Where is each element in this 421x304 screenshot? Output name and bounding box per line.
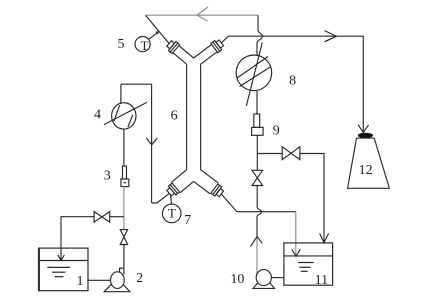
wire fitting 3 down to tee [123, 187, 125, 230]
column 6 bottom-left joint stub [167, 188, 175, 196]
wire hop over y211 line [257, 207, 262, 217]
wire vapor line y36 to flask [229, 36, 364, 131]
tank 11 liquid mark 3 [301, 270, 308, 272]
wire y84 header [121, 83, 152, 85]
column 6 top-left joint band [168, 42, 179, 54]
column 6 bottom-right joint band line [213, 185, 220, 194]
column 6 bottom-right joint stub [216, 189, 224, 197]
column 6 top-left joint stub [167, 41, 175, 49]
column 6 vertical tube right wall [200, 64, 202, 170]
fitting 9 neck [254, 114, 260, 127]
wire rotameter 4 to fitting 3 [123, 129, 125, 166]
flask 12 body [348, 138, 390, 188]
tank 1 left wall emphasis [38, 248, 40, 291]
wire pump 2 suction from tank 1 [88, 279, 111, 281]
thermometer 7 bulb [162, 204, 181, 223]
wire branch to valve V3 [257, 153, 282, 155]
rotameter 4 long diagonal [104, 102, 147, 124]
column 6 vertical tube left wall [186, 64, 188, 170]
pump 2 stand [104, 278, 130, 292]
wire header to rotameter 4 [120, 84, 122, 104]
column 6 top-right joint band [211, 41, 222, 53]
wire hop to rotameter 8 [256, 43, 258, 56]
svg-text:9: 9 [273, 124, 280, 139]
svg-text:12: 12 [359, 163, 373, 178]
tank 1 shell [39, 248, 88, 291]
rotameter 8 chord lower [240, 67, 272, 87]
wire column bottom-right outlet diagonal [221, 194, 295, 212]
flask 12 mouth [356, 137, 374, 139]
wire feed line from y84 header down to column [151, 84, 153, 203]
wire top-right corner down to hop [257, 15, 259, 30]
node thermometer 5 tap [156, 31, 159, 34]
svg-text:T: T [141, 38, 149, 53]
arrow left on top line [197, 7, 208, 21]
svg-text:1: 1 [77, 274, 84, 289]
thermometer 5 bulb [135, 37, 150, 52]
tank 11 liquid level [284, 255, 333, 257]
valve V2 vertical [120, 230, 127, 245]
thermometer 7 stub [171, 195, 172, 204]
svg-text:T: T [168, 206, 176, 221]
pump 2 body [111, 272, 125, 289]
svg-text:6: 6 [171, 108, 178, 123]
rotameter 8 long diagonal [246, 43, 262, 107]
column 6 top-left arm tube [173, 46, 194, 65]
wire hop over y36 line [257, 30, 262, 43]
arrow down into tank 1 liquid [58, 255, 64, 261]
wire pump 10 suction from tank 11 [271, 277, 284, 279]
tank 1 liquid mark 3 [55, 276, 64, 278]
tank 1 liquid level [39, 260, 88, 262]
wire fitting 9 to branch tee [256, 135, 258, 170]
svg-text:2: 2 [136, 271, 143, 286]
column 6 top-right joint stub [216, 40, 224, 48]
wire valve V3 to corner [300, 154, 324, 243]
arrow down on feed line [146, 138, 157, 145]
tank 11 liquid mark 2 [299, 266, 310, 268]
wire valve V2 to pump 2 nozzle [123, 245, 125, 269]
pump 10 body [256, 270, 271, 286]
wire valve V1 to tank 1 drop [61, 217, 94, 260]
wire pump 10 discharge lower [256, 237, 258, 274]
svg-text:4: 4 [94, 107, 101, 122]
wire hop down to pump 10 [256, 217, 258, 237]
wire bottom-left arm to feed line [152, 194, 170, 203]
svg-text:8: 8 [289, 74, 296, 89]
tank 1 liquid mark 1 [47, 266, 70, 268]
svg-text:5: 5 [118, 37, 125, 52]
column 6 bottom-left joint band [168, 183, 179, 195]
wire down into tank 11 left [295, 212, 297, 256]
column 6 bottom-right joint band [211, 184, 222, 196]
column 6 bottom-left arm tube [172, 170, 194, 193]
column 6 bottom-left joint band line [170, 185, 177, 194]
arrow down into tank 11 right [320, 233, 329, 242]
rotameter 4 chord right [128, 115, 133, 127]
rotameter 4 chord left [114, 105, 120, 121]
valve V3 horizontal [282, 147, 300, 160]
arrow right on y36 line [325, 31, 337, 42]
svg-text:11: 11 [315, 273, 328, 288]
wire top-right arm to vapor line [221, 36, 228, 43]
svg-text:10: 10 [230, 272, 244, 287]
rotameter 8 chord upper [237, 57, 268, 79]
wire nozzle into pump body [123, 268, 125, 274]
pump 2 nozzle step [120, 268, 124, 273]
rotameter 8 body [236, 55, 272, 91]
thermometer 5 stub [149, 33, 158, 40]
column 6 top-right joint band line [213, 42, 220, 51]
flask 12 stopper [358, 133, 373, 138]
fitting 3 neck [123, 166, 127, 179]
column 6 bottom-right arm tube [194, 170, 219, 194]
valve V1 horizontal [94, 212, 110, 223]
arrow up on pump 10 riser [250, 237, 262, 247]
tank 1 liquid mark 2 [52, 271, 65, 273]
arrow down into flask 12 [358, 125, 369, 133]
tank 11 shell [284, 243, 333, 285]
wire rotameter 8 to fitting 9 [256, 91, 258, 114]
column 6 top-left joint band line [170, 43, 177, 52]
wire tee to valve V1 [110, 216, 124, 218]
wire top reflux line [146, 14, 259, 16]
svg-text:7: 7 [184, 213, 191, 228]
wire top-left arm to apex [146, 15, 170, 43]
column 6 top-right arm tube [194, 44, 218, 64]
tank 11 liquid mark 1 [298, 262, 314, 264]
valve V4 vertical on riser [252, 170, 263, 185]
fitting 9 socket [252, 127, 264, 135]
fitting 3 inner dash [124, 182, 127, 184]
rotameter 4 body [112, 103, 136, 129]
fitting 3 socket [121, 179, 129, 187]
arrow down into tank 11 liquid [292, 249, 300, 256]
wire valve V4 down to hop [256, 186, 258, 208]
pump 10 stand [253, 276, 275, 288]
svg-text:3: 3 [104, 168, 111, 183]
